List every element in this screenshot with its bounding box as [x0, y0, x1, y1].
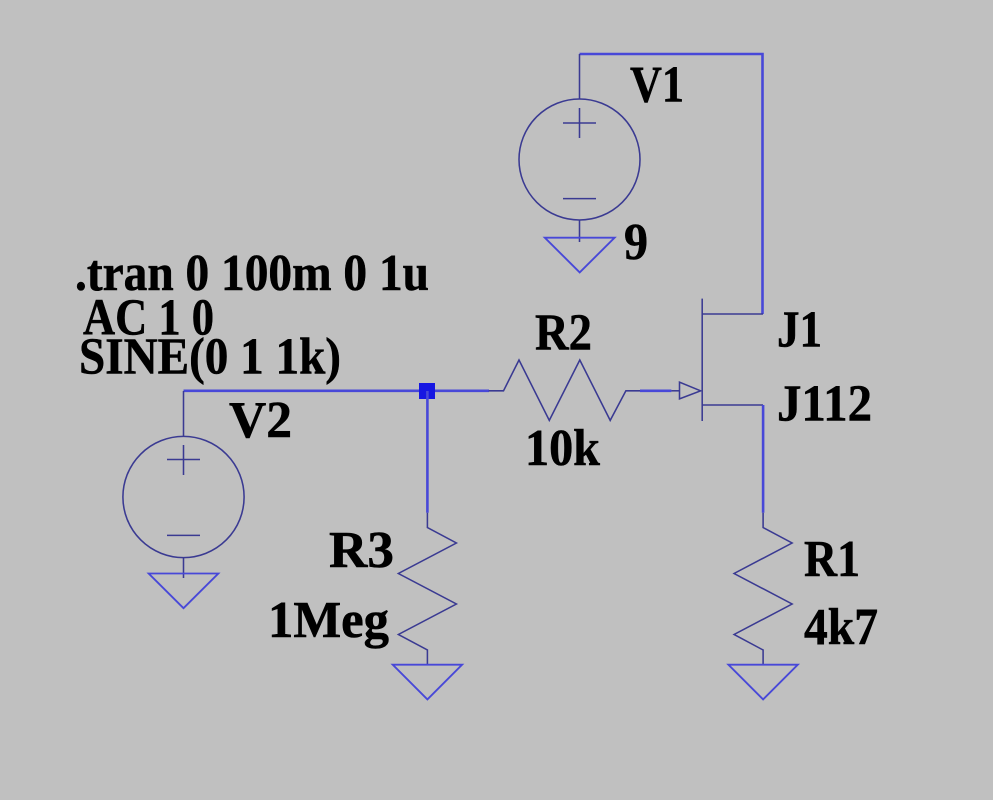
- jfet J1 gate lead and arrow: [671, 390, 679, 392]
- resistor R2: [489, 360, 640, 420]
- svg-text:9: 9: [624, 214, 648, 271]
- voltage source V2: [123, 391, 244, 578]
- ground under R1: [728, 665, 797, 700]
- ground under V2: [149, 574, 219, 609]
- ground under V1: [545, 238, 615, 273]
- wire V2 top to node: [184, 389, 490, 392]
- wire R2 to J1 gate: [640, 389, 671, 392]
- ground under R3: [393, 665, 462, 700]
- svg-text:4k7: 4k7: [804, 599, 878, 656]
- svg-text:R1: R1: [804, 531, 860, 588]
- svg-text:10k: 10k: [525, 420, 600, 477]
- node junction: [419, 383, 435, 399]
- resistor R1: [734, 513, 792, 665]
- svg-text:V2: V2: [229, 392, 292, 449]
- svg-text:R2: R2: [535, 304, 592, 361]
- resistor R3: [398, 513, 456, 665]
- voltage source V1: [519, 54, 640, 242]
- svg-text:V1: V1: [630, 56, 684, 113]
- svg-text:J112: J112: [777, 376, 872, 433]
- svg-text:1Meg: 1Meg: [268, 592, 389, 649]
- jfet J1 body: [702, 299, 763, 421]
- svg-text:J1: J1: [777, 302, 822, 359]
- wire node down to R3: [426, 391, 429, 513]
- wire source to R1: [762, 405, 765, 513]
- wire top rail V1 to drain: [580, 54, 763, 314]
- svg-text:R3: R3: [329, 522, 394, 579]
- svg-text:SINE(0 1 1k): SINE(0 1 1k): [79, 328, 341, 385]
